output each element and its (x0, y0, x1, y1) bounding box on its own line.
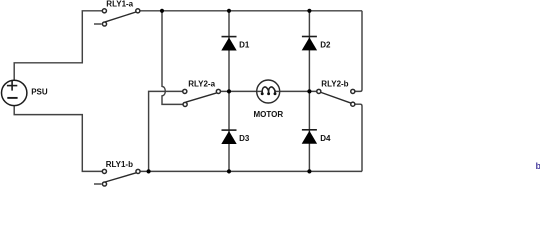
wire D2 D4 branch column (308, 11, 310, 172)
svg-text:RLY2-b: RLY2-b (321, 79, 348, 88)
watermark glyph (536, 161, 540, 171)
label RLY2-a (188, 79, 215, 88)
svg-text:D3: D3 (239, 134, 250, 143)
svg-text:RLY2-a: RLY2-a (188, 79, 215, 88)
diode D2 (302, 37, 317, 51)
node bottom rail to RLY2-a feed (147, 169, 151, 173)
diode D3 (221, 130, 236, 144)
label D2 (320, 41, 331, 50)
wire RLY2-b upper throw to top rail (353, 11, 362, 92)
PSU U1 dc source (2, 80, 27, 105)
node top rail D2 branch (307, 9, 311, 13)
wire bottom rail to RLY2-a upper throw (149, 91, 185, 171)
wire D1 D3 branch column (228, 11, 230, 172)
diode D4 (302, 130, 317, 144)
node top rail to RLY2-a feed (160, 9, 164, 13)
motor M1 (257, 80, 280, 103)
wire top rail (138, 10, 362, 12)
wire PSU negative lead to RLY1-b (14, 106, 104, 172)
label PSU (31, 88, 48, 97)
wire RLY2-a pole to motor left node (218, 90, 257, 92)
label RLY2-b (321, 79, 348, 88)
wire top rail to RLY2-a lower throw with hop (162, 11, 185, 105)
relay contact RLY2-b (317, 89, 355, 106)
wire motor right node to RLY2-b pole (280, 90, 319, 92)
label D3 (239, 134, 250, 143)
node top rail D1 branch (227, 9, 231, 13)
svg-text:D4: D4 (320, 134, 331, 143)
relay contact RLY1-a (94, 9, 140, 26)
node bottom rail D3 branch (227, 169, 231, 173)
svg-text:PSU: PSU (31, 88, 48, 97)
svg-text:MOTOR: MOTOR (254, 110, 284, 119)
wire bottom rail (138, 170, 362, 172)
svg-text:RLY1-b: RLY1-b (106, 160, 133, 169)
label D1 (239, 41, 250, 50)
wire RLY2-b lower throw to bottom rail (353, 104, 362, 171)
svg-text:b: b (536, 161, 540, 171)
node motor left (227, 89, 231, 93)
label RLY1-b (106, 160, 133, 169)
wire PSU positive lead to RLY1-a (14, 11, 104, 80)
label RLY1-a (106, 0, 133, 9)
svg-text:D1: D1 (239, 41, 250, 50)
node motor right (307, 89, 311, 93)
label MOTOR (254, 110, 284, 119)
diode D1 (221, 37, 236, 51)
relay contact RLY2-a (183, 89, 221, 106)
svg-text:D2: D2 (320, 41, 331, 50)
node bottom rail D4 branch (307, 169, 311, 173)
label D4 (320, 134, 331, 143)
relay contact RLY1-b (94, 169, 140, 186)
svg-text:RLY1-a: RLY1-a (106, 0, 133, 9)
